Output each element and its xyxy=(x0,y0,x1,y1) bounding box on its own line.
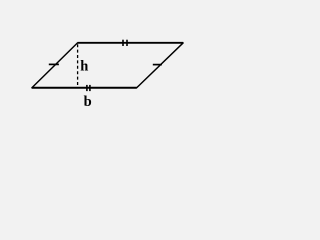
parallelogram right edge xyxy=(137,43,183,88)
double tick marks on top edge xyxy=(122,40,124,46)
single tick mark on left edge xyxy=(49,63,59,65)
parallelogram left edge xyxy=(32,43,78,88)
dashed height line xyxy=(77,44,79,88)
single tick mark on right edge xyxy=(153,64,162,66)
svg-text:b: b xyxy=(84,94,92,110)
double tick marks on bottom edge xyxy=(86,85,88,91)
parallelogram top edge xyxy=(78,42,184,44)
parallelogram bottom edge xyxy=(32,87,137,89)
svg-text:h: h xyxy=(80,58,88,74)
